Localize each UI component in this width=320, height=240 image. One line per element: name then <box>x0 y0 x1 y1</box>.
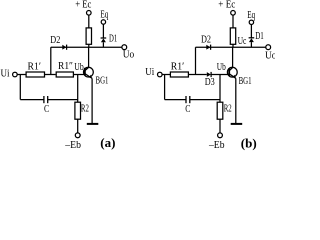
wire C to R2 node b <box>190 99 220 101</box>
svg-text:C: C <box>185 104 190 115</box>
resistor R1' b <box>170 72 188 77</box>
ground <box>87 123 99 125</box>
svg-text:Eq: Eq <box>100 10 108 21</box>
wire Eq to D1 b <box>250 25 252 38</box>
diode D2 <box>62 45 66 50</box>
wire Ec to Rc b <box>232 15 234 28</box>
wire top rail b <box>196 46 266 48</box>
wire junction drop b <box>195 47 197 74</box>
svg-text:R1″: R1″ <box>58 61 73 72</box>
terminal Uo <box>122 45 127 50</box>
svg-text:C: C <box>44 104 49 115</box>
svg-text:D1: D1 <box>255 31 264 42</box>
svg-text:Eq: Eq <box>247 10 255 21</box>
wire C to R2 node <box>48 99 78 101</box>
wire Ui to R1' b <box>162 74 170 76</box>
svg-text:–Eb: –Eb <box>208 140 224 151</box>
wire Eq to D1 <box>102 24 104 38</box>
svg-text:+ Ec: + Ec <box>75 0 92 11</box>
capacitor C <box>43 96 45 103</box>
svg-text:Ui: Ui <box>1 68 10 79</box>
transistor BG1 b <box>227 67 237 77</box>
terminal Ui b <box>158 72 163 77</box>
svg-text:Ub: Ub <box>217 62 226 73</box>
terminal +Ec b <box>231 11 236 16</box>
wire Ec to Rc <box>88 15 90 28</box>
terminal Eq b <box>249 20 253 24</box>
wire Ui node down b <box>164 75 166 100</box>
wire D3 to base <box>211 74 229 76</box>
diode D3 <box>207 72 211 77</box>
svg-text:+ Ec: + Ec <box>218 0 236 11</box>
wire Rc to rail b <box>232 44 234 47</box>
wire Ui to R1' <box>17 74 26 76</box>
svg-text:BG1: BG1 <box>96 76 109 87</box>
svg-text:Uo: Uo <box>123 49 135 60</box>
svg-text:–Eb: –Eb <box>64 140 81 151</box>
svg-text:D2: D2 <box>50 35 60 46</box>
resistor Rc <box>86 28 91 44</box>
wire top rail <box>51 46 122 48</box>
diode D2 b <box>206 45 210 50</box>
capacitor C b <box>185 96 187 103</box>
wire junction drop to node between R1' and R1'' <box>50 47 52 74</box>
svg-text:BG1: BG1 <box>239 76 252 87</box>
svg-text:Ub: Ub <box>74 62 84 73</box>
wire base to R2 b <box>219 75 221 103</box>
wire Ui node down <box>19 75 21 100</box>
terminal +Ec <box>87 11 92 16</box>
terminal Ui <box>13 72 18 77</box>
terminal -Eb b <box>218 133 223 138</box>
svg-text:Uc: Uc <box>238 36 247 47</box>
svg-text:R1′: R1′ <box>171 61 185 72</box>
wire R1'' to base <box>73 74 85 76</box>
svg-text:(b): (b) <box>241 135 257 150</box>
terminal Uo b <box>266 45 271 50</box>
wire Rc to rail <box>88 44 90 47</box>
svg-text:R2: R2 <box>81 103 89 114</box>
wire base to R2 <box>77 75 79 103</box>
diode D1 b <box>249 37 255 39</box>
terminal Eq <box>101 20 105 24</box>
ground b <box>231 123 243 125</box>
svg-text:R1′: R1′ <box>28 62 42 73</box>
svg-text:Ui: Ui <box>145 67 154 78</box>
diode D1 <box>101 37 107 39</box>
svg-text:D1: D1 <box>109 34 117 45</box>
resistor R2 <box>75 102 81 119</box>
svg-text:R2: R2 <box>224 103 232 114</box>
wire bottom left <box>20 99 44 101</box>
svg-text:(a): (a) <box>100 135 115 150</box>
wire R1' to D3 <box>188 74 206 76</box>
resistor R2 b <box>217 102 223 119</box>
transistor BG1 <box>84 67 94 77</box>
resistor R1'' <box>56 72 73 77</box>
svg-text:D3: D3 <box>205 77 215 88</box>
wire R1' to R1'' <box>45 74 56 76</box>
wire R2 to -Eb <box>77 119 79 133</box>
resistor R1' <box>26 72 44 77</box>
wire bottom left b <box>165 99 186 101</box>
wire R2 to -Eb b <box>219 119 221 132</box>
svg-text:Uo: Uo <box>265 51 275 62</box>
resistor Rc b <box>230 28 235 44</box>
terminal -Eb <box>75 133 80 138</box>
svg-text:D2: D2 <box>201 35 211 46</box>
